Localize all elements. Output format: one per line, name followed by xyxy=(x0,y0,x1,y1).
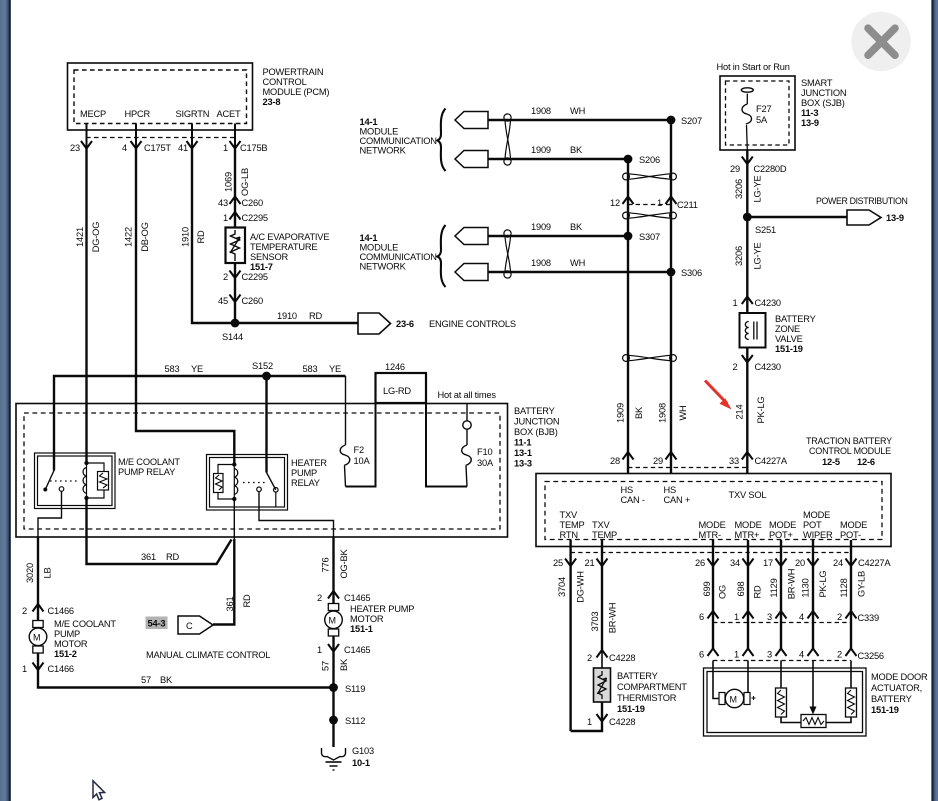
svg-text:3703: 3703 xyxy=(590,612,600,632)
connector arrow POWER DISTRIBUTION 13-9 xyxy=(816,196,907,225)
potentiometer resistor xyxy=(801,715,826,728)
svg-text:C1465: C1465 xyxy=(344,593,370,603)
svg-text:151-19: 151-19 xyxy=(871,705,899,715)
svg-text:29: 29 xyxy=(653,456,663,466)
fuse F2 10A xyxy=(340,376,370,487)
splice S112 xyxy=(329,716,365,726)
svg-text:ACET: ACET xyxy=(217,109,242,119)
pin 24 connector C4227A xyxy=(833,558,891,568)
svg-text:TXV: TXV xyxy=(560,510,578,520)
svg-text:BK: BK xyxy=(339,658,349,671)
pin 1 connector C4230 xyxy=(733,297,781,309)
svg-text:10-1: 10-1 xyxy=(352,758,370,768)
svg-text:3206: 3206 xyxy=(734,246,744,266)
wire 1130 PK-LG xyxy=(801,566,829,611)
splice S207 xyxy=(667,116,702,126)
pin 33 connector C4227A xyxy=(729,452,788,466)
svg-text:3704: 3704 xyxy=(557,577,567,597)
svg-text:HPCR: HPCR xyxy=(125,109,151,119)
svg-text:LG-YE: LG-YE xyxy=(753,243,763,270)
smart junction box SJB xyxy=(720,76,795,150)
svg-text:F27: F27 xyxy=(756,104,771,114)
svg-text:MOTOR: MOTOR xyxy=(54,639,88,649)
svg-text:6: 6 xyxy=(699,650,704,660)
connector C211 xyxy=(610,197,698,211)
svg-text:C3256: C3256 xyxy=(858,651,884,661)
relay label M/E COOLANT PUMP RELAY xyxy=(118,457,180,477)
battery zone valve xyxy=(740,313,766,348)
wire sensor to S144 xyxy=(234,263,236,323)
svg-text:JUNCTION: JUNCTION xyxy=(801,88,846,98)
svg-text:RELAY: RELAY xyxy=(291,478,320,488)
svg-text:1: 1 xyxy=(587,717,592,727)
svg-text:MODE DOOR: MODE DOOR xyxy=(871,672,928,682)
svg-text:LB: LB xyxy=(43,568,53,579)
svg-text:DG-WH: DG-WH xyxy=(576,571,586,603)
pin 20 arrow xyxy=(795,558,818,568)
svg-text:BK: BK xyxy=(634,406,644,419)
svg-text:OG-BK: OG-BK xyxy=(339,549,349,579)
A/C evaporative temperature sensor xyxy=(226,228,246,264)
wire 1910 RD to engine controls xyxy=(235,311,358,323)
connector C175 dashed line xyxy=(86,137,236,139)
svg-text:29: 29 xyxy=(730,164,740,174)
PCM pin names xyxy=(80,109,241,119)
svg-text:S307: S307 xyxy=(639,232,660,242)
svg-text:SIGRTN: SIGRTN xyxy=(176,109,210,119)
svg-text:361: 361 xyxy=(141,552,156,562)
svg-text:BOX (BJB): BOX (BJB) xyxy=(514,427,558,437)
svg-text:BOX (SJB): BOX (SJB) xyxy=(801,98,845,108)
wire 699 OG xyxy=(702,566,728,611)
splice S206 xyxy=(624,155,660,165)
svg-text:1: 1 xyxy=(223,213,228,223)
right blue sidebar xyxy=(931,0,938,801)
svg-text:G103: G103 xyxy=(352,746,374,756)
battery compartment thermistor xyxy=(594,668,611,702)
svg-text:1908: 1908 xyxy=(658,403,668,423)
close button xyxy=(851,12,911,72)
splice S144 xyxy=(222,319,243,342)
potentiometer wiper arrow xyxy=(810,661,817,715)
svg-text:C4228: C4228 xyxy=(609,717,635,727)
wire 57 BK below heater motor xyxy=(321,636,350,747)
actuator resistor left xyxy=(776,661,787,718)
svg-text:DB-OG: DB-OG xyxy=(140,222,150,251)
svg-text:HS: HS xyxy=(664,485,677,495)
svg-text:MODE: MODE xyxy=(699,520,726,530)
svg-text:LG-YE: LG-YE xyxy=(753,176,763,203)
svg-text:TEMP: TEMP xyxy=(592,530,617,540)
PCM pin stubs xyxy=(87,124,236,149)
heater pump motor M2 xyxy=(325,604,343,637)
mode door actuator box xyxy=(704,668,867,736)
svg-text:C339: C339 xyxy=(858,613,879,623)
svg-text:MODE: MODE xyxy=(840,520,867,530)
svg-text:25: 25 xyxy=(553,558,563,568)
svg-text:13-9: 13-9 xyxy=(801,118,819,128)
svg-text:VALVE: VALVE xyxy=(775,334,803,344)
svg-text:12: 12 xyxy=(610,198,620,208)
svg-text:CONTROL MODULE: CONTROL MODULE xyxy=(809,446,891,456)
svg-text:1909: 1909 xyxy=(616,403,626,423)
svg-text:SMART: SMART xyxy=(801,78,833,88)
svg-text:5A: 5A xyxy=(756,115,768,125)
heater relay switch xyxy=(257,473,278,508)
svg-text:BATTERY: BATTERY xyxy=(617,671,658,681)
svg-text:2: 2 xyxy=(837,612,842,622)
wire 1910 RD from SIGRTN xyxy=(181,149,232,324)
svg-text:1909: 1909 xyxy=(531,145,551,155)
fuse element terminal xyxy=(741,88,753,92)
wire 698 RD xyxy=(736,566,763,611)
connector pentagon HS CAN wire 2 xyxy=(455,151,488,168)
wire 361 RD vertical to climate control xyxy=(213,539,252,625)
svg-text:OG-LB: OG-LB xyxy=(240,168,250,196)
svg-text:S119: S119 xyxy=(345,684,365,694)
svg-text:M/E COOLANT: M/E COOLANT xyxy=(54,619,116,629)
svg-text:OG: OG xyxy=(718,585,728,599)
wire label 1909 BK vertical xyxy=(616,403,645,423)
connector pentagon HS CAN wire 1 xyxy=(455,112,488,129)
svg-text:12-6: 12-6 xyxy=(857,457,875,467)
svg-text:10A: 10A xyxy=(354,456,371,466)
svg-text:C: C xyxy=(186,621,193,631)
svg-text:34: 34 xyxy=(730,558,740,568)
svg-text:C2295: C2295 xyxy=(242,213,268,223)
svg-text:776: 776 xyxy=(321,558,331,573)
splice S152 xyxy=(252,361,273,380)
svg-text:ENGINE CONTROLS: ENGINE CONTROLS xyxy=(429,319,516,329)
svg-text:NETWORK: NETWORK xyxy=(360,262,407,272)
svg-text:151-19: 151-19 xyxy=(617,704,645,714)
svg-text:23: 23 xyxy=(70,143,80,153)
connector pentagon HS CAN wire 3 xyxy=(455,228,488,245)
connector C3256 row xyxy=(699,649,884,662)
svg-text:ZONE: ZONE xyxy=(775,324,800,334)
wire 1246 box to F10 xyxy=(426,403,467,487)
svg-text:RD: RD xyxy=(753,585,763,599)
svg-text:1908: 1908 xyxy=(531,106,551,116)
svg-text:C4227A: C4227A xyxy=(755,456,788,466)
actuator motor M3 xyxy=(719,689,756,707)
battery feed terminal xyxy=(463,404,471,430)
pin 2 connector C2295 xyxy=(223,271,268,283)
connector arrow 23-6 ENGINE CONTROLS xyxy=(358,313,516,334)
svg-text:2: 2 xyxy=(837,650,842,660)
pin 28 arrow xyxy=(610,452,633,466)
svg-text:COMPARTMENT: COMPARTMENT xyxy=(617,682,687,692)
svg-text:WH: WH xyxy=(678,405,688,420)
svg-text:11-1: 11-1 xyxy=(514,438,531,448)
svg-text:1910: 1910 xyxy=(181,227,191,247)
connector C4227A dashed line bottom xyxy=(571,552,851,554)
svg-text:MODE: MODE xyxy=(803,510,830,520)
wire 1908 WH lower xyxy=(488,258,671,272)
wire heater switch output 776 OG-BK xyxy=(259,492,334,537)
svg-text:24: 24 xyxy=(833,558,843,568)
svg-text:698: 698 xyxy=(736,582,746,597)
heater motor title xyxy=(350,604,414,634)
svg-text:HS: HS xyxy=(621,485,634,495)
svg-text:4: 4 xyxy=(799,650,804,660)
connector pentagon HS CAN wire 4 xyxy=(455,264,488,281)
wire 3704 DG-WH xyxy=(557,566,586,731)
svg-text:TXV: TXV xyxy=(592,520,610,530)
svg-text:BK: BK xyxy=(570,222,583,232)
svg-text:NETWORK: NETWORK xyxy=(360,146,407,156)
wires between C339 and C3256 xyxy=(713,611,851,649)
svg-text:1128: 1128 xyxy=(839,578,849,597)
ground G103 xyxy=(322,746,374,770)
svg-text:17: 17 xyxy=(763,558,773,568)
svg-text:BATTERY: BATTERY xyxy=(514,406,555,416)
twisted crossover lower run xyxy=(623,355,677,362)
svg-text:13-3: 13-3 xyxy=(514,459,532,469)
relay label HEATER PUMP RELAY xyxy=(291,458,327,488)
wire heater coil to 361 node xyxy=(233,499,235,539)
svg-text:3: 3 xyxy=(767,650,772,660)
pin 21 arrow xyxy=(585,558,608,568)
svg-text:2: 2 xyxy=(22,606,27,616)
connector C4227A dashed line top xyxy=(628,467,747,469)
svg-text:YE: YE xyxy=(191,364,203,374)
brace lower xyxy=(438,225,446,287)
svg-text:C1466: C1466 xyxy=(48,664,74,674)
svg-text:583: 583 xyxy=(165,364,180,374)
pin 1 connector C1466 xyxy=(22,663,74,675)
svg-text:21: 21 xyxy=(585,558,595,568)
svg-text:33: 33 xyxy=(729,456,739,466)
svg-text:1246: 1246 xyxy=(385,362,405,372)
svg-text:MECP: MECP xyxy=(80,109,106,119)
pin 43 connector C260 xyxy=(218,197,263,209)
module communication network label lower xyxy=(360,233,437,272)
svg-text:BR-WH: BR-WH xyxy=(608,603,618,634)
svg-text:MODE: MODE xyxy=(735,520,762,530)
actuator title xyxy=(871,672,928,715)
svg-text:C175T: C175T xyxy=(144,143,171,153)
battery junction box BJB xyxy=(16,404,508,538)
wire 1421 DG-OG from MECP xyxy=(75,149,101,464)
wire 3703 BR-WH xyxy=(590,566,618,650)
svg-text:1: 1 xyxy=(734,612,739,622)
svg-text:S206: S206 xyxy=(639,155,660,165)
svg-text:1: 1 xyxy=(657,198,662,208)
wire into heater motor xyxy=(332,591,334,604)
svg-text:F2: F2 xyxy=(354,445,364,455)
svg-text:RD: RD xyxy=(309,311,323,321)
svg-text:699: 699 xyxy=(702,582,712,597)
svg-text:BK: BK xyxy=(160,675,173,685)
pin 29 connector C2280D xyxy=(730,150,787,217)
wire stubs into TBCM top xyxy=(628,455,747,474)
BJB title xyxy=(514,406,559,469)
svg-text:151-1: 151-1 xyxy=(350,624,373,634)
M/E coolant pump motor M1 xyxy=(29,621,47,654)
wire 57 BK from M/E motor to S119 xyxy=(38,653,334,688)
svg-text:583: 583 xyxy=(303,364,318,374)
TBCM pin names bottom row xyxy=(560,510,868,540)
wire M/E switch output 3020 LB xyxy=(38,491,62,537)
svg-text:361: 361 xyxy=(225,597,235,612)
svg-text:C4230: C4230 xyxy=(755,298,781,308)
svg-text:57: 57 xyxy=(321,661,331,671)
splice S306 xyxy=(667,268,702,278)
svg-text:1909: 1909 xyxy=(531,222,551,232)
pin 2 connector C1466 xyxy=(22,604,74,616)
wire HS CAN- vertical xyxy=(627,159,629,455)
mouse cursor xyxy=(93,781,105,800)
svg-text:POT-: POT- xyxy=(840,530,861,540)
svg-text:YE: YE xyxy=(329,364,341,374)
svg-text:F10: F10 xyxy=(477,447,492,457)
svg-text:BK: BK xyxy=(570,145,583,155)
twisted pair symbol upper xyxy=(504,114,511,165)
svg-text:S144: S144 xyxy=(222,332,243,342)
svg-text:1069: 1069 xyxy=(224,172,234,192)
svg-text:ACTUATOR,: ACTUATOR, xyxy=(871,683,922,693)
svg-text:1910: 1910 xyxy=(277,311,297,321)
pin 4 connector C175T xyxy=(122,141,171,153)
svg-text:13-1: 13-1 xyxy=(514,448,532,458)
pin 29 arrow xyxy=(653,452,676,466)
svg-text:MTR+: MTR+ xyxy=(735,530,760,540)
red annotation arrow xyxy=(705,381,732,410)
svg-text:M: M xyxy=(33,633,40,643)
actuator resistor right xyxy=(846,661,857,718)
svg-text:A/C EVAPORATIVE: A/C EVAPORATIVE xyxy=(250,232,329,242)
svg-text:TXV SOL: TXV SOL xyxy=(729,490,767,500)
svg-text:14-1: 14-1 xyxy=(360,117,378,127)
twisted crossover below C211 xyxy=(623,212,677,219)
pin 26 arrow xyxy=(695,558,718,568)
pin 45 connector C260 xyxy=(218,295,263,307)
wire 776 OG-BK label xyxy=(321,549,350,579)
pin 23 arrow xyxy=(70,141,92,153)
wire 214 PK-LG xyxy=(735,348,767,456)
svg-text:Hot at all times: Hot at all times xyxy=(438,390,497,400)
svg-text:MODULE: MODULE xyxy=(360,127,399,137)
wire into actuator motor left xyxy=(713,661,719,699)
sensor title xyxy=(250,232,329,272)
svg-text:151-19: 151-19 xyxy=(775,344,803,354)
wire to power distribution xyxy=(747,216,847,218)
svg-text:S112: S112 xyxy=(345,716,365,726)
svg-text:RD: RD xyxy=(242,594,252,608)
svg-text:1130: 1130 xyxy=(801,578,811,597)
heater pump relay box xyxy=(207,455,288,511)
svg-text:PK-LG: PK-LG xyxy=(818,571,828,598)
svg-text:20: 20 xyxy=(795,558,805,568)
svg-text:CAN +: CAN + xyxy=(664,495,691,505)
svg-text:1: 1 xyxy=(733,298,738,308)
twisted crossover above C211 xyxy=(623,173,677,180)
brace upper xyxy=(438,109,446,172)
splice S119 xyxy=(329,683,365,694)
traction battery control module box xyxy=(536,474,891,547)
fuse F10 30A xyxy=(462,429,494,486)
svg-text:POWER DISTRIBUTION: POWER DISTRIBUTION xyxy=(816,196,907,206)
connector C339 row xyxy=(699,611,879,623)
module communication network label upper xyxy=(360,117,437,156)
connector pentagon C manual climate control xyxy=(178,616,213,634)
wire S251 to valve xyxy=(734,217,763,313)
svg-text:MODULE (PCM): MODULE (PCM) xyxy=(263,87,330,97)
svg-text:THERMISTOR: THERMISTOR xyxy=(617,693,677,703)
svg-text:1422: 1422 xyxy=(124,227,134,247)
svg-text:RD: RD xyxy=(196,230,206,244)
pin 1 connector C4228 xyxy=(587,714,635,727)
svg-text:CAN -: CAN - xyxy=(621,495,645,505)
heater relay coil xyxy=(214,462,238,501)
svg-text:C1465: C1465 xyxy=(344,645,370,655)
wire 3020 LB label xyxy=(25,563,53,583)
splice S307 xyxy=(624,232,660,242)
svg-text:C1466: C1466 xyxy=(48,606,74,616)
wire box 1246 LG-RD xyxy=(376,362,427,403)
svg-text:C2280D: C2280D xyxy=(754,164,787,174)
svg-text:3206: 3206 xyxy=(734,179,744,199)
svg-text:JUNCTION: JUNCTION xyxy=(514,417,559,427)
svg-text:1: 1 xyxy=(734,650,739,660)
svg-text:2: 2 xyxy=(733,362,738,372)
svg-text:C211: C211 xyxy=(677,200,698,210)
svg-text:BATTERY: BATTERY xyxy=(871,694,912,704)
svg-text:30A: 30A xyxy=(477,458,494,468)
svg-text:4: 4 xyxy=(122,143,127,153)
svg-text:S306: S306 xyxy=(681,268,702,278)
svg-text:214: 214 xyxy=(735,405,745,420)
wire into actuator motor right xyxy=(747,661,749,693)
link 54-3 highlighted xyxy=(146,617,168,630)
svg-text:11-3: 11-3 xyxy=(801,108,818,118)
svg-text:13-9: 13-9 xyxy=(886,213,904,223)
wire F2 to 1246 box xyxy=(346,403,376,487)
svg-text:1908: 1908 xyxy=(531,258,551,268)
wire 361 RD xyxy=(87,498,232,564)
pin 17 arrow xyxy=(763,558,786,568)
svg-text:151-7: 151-7 xyxy=(250,262,273,272)
svg-text:M: M xyxy=(329,616,336,626)
svg-text:23-8: 23-8 xyxy=(263,97,281,107)
pin 2 connector C1465 xyxy=(317,591,370,603)
svg-text:RTN: RTN xyxy=(560,530,578,540)
wire 1908 WH upper xyxy=(488,106,671,120)
svg-text:1: 1 xyxy=(317,645,322,655)
svg-text:MODULE: MODULE xyxy=(360,243,399,253)
svg-text:PUMP RELAY: PUMP RELAY xyxy=(118,467,175,477)
pin 1 connector C2295 xyxy=(223,212,268,223)
svg-text:41: 41 xyxy=(178,143,188,153)
svg-text:3020: 3020 xyxy=(25,563,35,583)
svg-text:54-3: 54-3 xyxy=(148,619,166,629)
svg-text:MANUAL CLIMATE CONTROL: MANUAL CLIMATE CONTROL xyxy=(146,650,270,660)
svg-text:S251: S251 xyxy=(755,225,776,235)
fuse F27 5A xyxy=(742,94,771,150)
M/E relay switch xyxy=(43,471,64,492)
svg-text:POT+: POT+ xyxy=(769,530,793,540)
pin 1 connector C1465 xyxy=(317,644,370,655)
svg-text:C4227A: C4227A xyxy=(858,558,891,568)
svg-text:MODE: MODE xyxy=(769,520,796,530)
SJB title xyxy=(801,78,846,128)
svg-text:DG-OG: DG-OG xyxy=(91,222,101,253)
svg-text:14-1: 14-1 xyxy=(360,233,378,243)
svg-text:C175B: C175B xyxy=(240,143,267,153)
wire into thermistor xyxy=(601,650,603,668)
svg-text:23-6: 23-6 xyxy=(396,319,414,329)
